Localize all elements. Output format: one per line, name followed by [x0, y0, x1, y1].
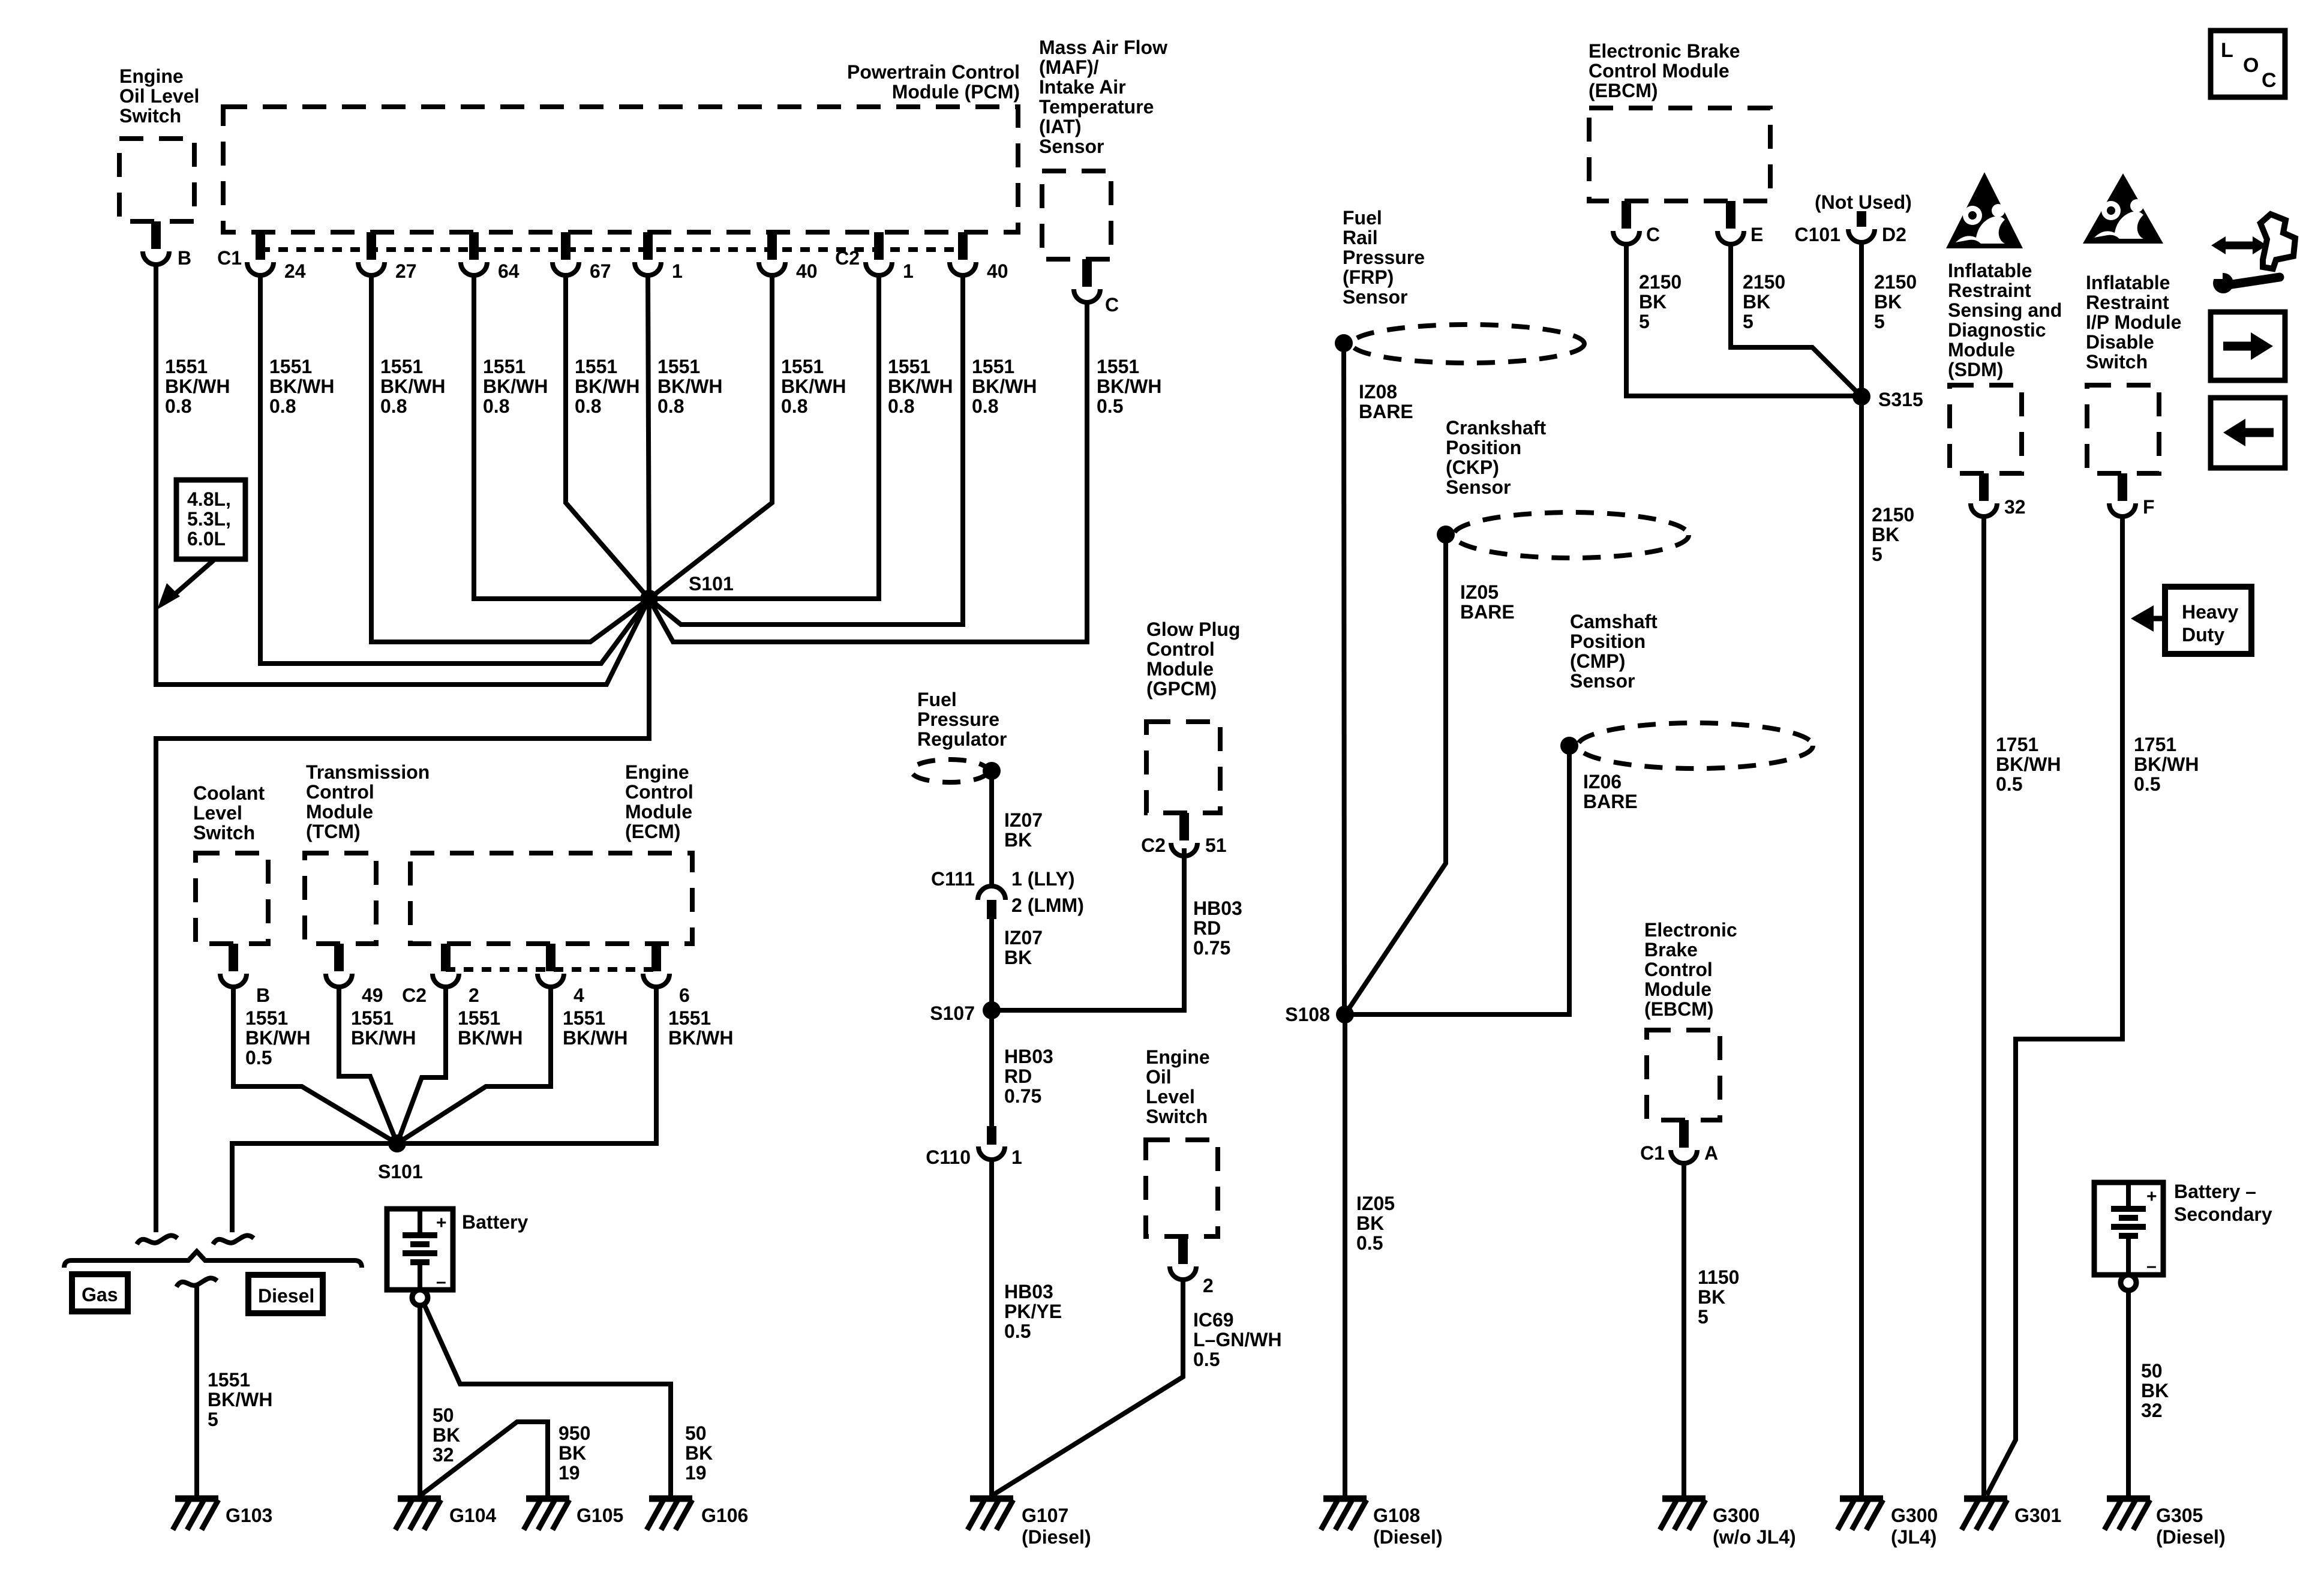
- node Gas: [72, 1274, 128, 1311]
- svg-text:G301: G301: [2014, 1505, 2061, 1526]
- svg-text:BK/WH: BK/WH: [575, 376, 639, 397]
- svg-text:50: 50: [433, 1404, 454, 1426]
- svg-text:G105: G105: [577, 1505, 623, 1526]
- note box 4.8L 5.3L 6.0L: [176, 480, 245, 559]
- svg-text:G108: G108: [1373, 1505, 1420, 1526]
- svg-text:49: 49: [362, 984, 383, 1006]
- svg-text:6.0L: 6.0L: [187, 528, 226, 550]
- ground G300 (JL4): [1840, 1496, 1883, 1502]
- svg-text:1: 1: [903, 260, 914, 282]
- ground G300 (w/o JL4): [1662, 1496, 1706, 1502]
- svg-text:BK/WH: BK/WH: [1097, 376, 1161, 397]
- svg-text:0.5: 0.5: [1097, 395, 1123, 417]
- wire MAF-C to S101: [649, 302, 1087, 642]
- svg-text:S315: S315: [1878, 389, 1923, 410]
- connector pin 67 at x=943 (PCM): [561, 232, 571, 260]
- svg-text:IC69: IC69: [1193, 1309, 1234, 1331]
- svg-text:1551: 1551: [380, 356, 423, 377]
- wire D2/S315 to G300 JL4: [1859, 242, 1864, 1499]
- ground G104: [398, 1496, 441, 1502]
- svg-text:Intake Air: Intake Air: [1039, 76, 1126, 98]
- svg-text:S101: S101: [689, 573, 734, 595]
- splice S101 (lower): [388, 1134, 406, 1152]
- svg-text:(FRP): (FRP): [1343, 266, 1394, 288]
- wire TCM-49 to S101 lower: [339, 987, 397, 1143]
- svg-text:BK: BK: [1356, 1212, 1384, 1234]
- connector pin 2 at x=743 (lower row): [441, 944, 451, 971]
- svg-text:2150: 2150: [1743, 271, 1785, 293]
- svg-text:O: O: [2243, 54, 2259, 77]
- wire FPR to C111: [989, 771, 994, 886]
- svg-text:0.5: 0.5: [1193, 1349, 1220, 1370]
- connector pin B at x=389 (lower row): [229, 944, 238, 971]
- wire S101 down-feed to lower section: [156, 599, 649, 1232]
- svg-text:32: 32: [433, 1444, 454, 1466]
- svg-text:G300: G300: [1891, 1505, 1938, 1526]
- svg-text:2 (LMM): 2 (LMM): [1011, 894, 1084, 916]
- svg-text:G305: G305: [2156, 1505, 2203, 1526]
- svg-text:0.5: 0.5: [1996, 773, 2022, 795]
- svg-text:Coolant: Coolant: [193, 782, 265, 804]
- svg-text:Module: Module: [1948, 339, 2015, 361]
- svg-text:BK/WH: BK/WH: [972, 376, 1037, 397]
- svg-text:1551: 1551: [668, 1007, 711, 1029]
- svg-text:Battery: Battery: [462, 1211, 528, 1233]
- svg-text:(SDM): (SDM): [1948, 359, 2003, 380]
- svg-text:1150: 1150: [1698, 1266, 1739, 1288]
- connector pin E (EBCM): [1726, 201, 1736, 229]
- svg-text:HB03: HB03: [1004, 1281, 1053, 1302]
- svg-text:BK: BK: [1743, 291, 1770, 313]
- battery Battery: [387, 1209, 453, 1290]
- wire SDM-32 to G301: [1981, 517, 1986, 1499]
- svg-text:BK/WH: BK/WH: [563, 1027, 627, 1049]
- svg-text:Electronic: Electronic: [1644, 919, 1737, 941]
- wire EBCM-E to S315: [1731, 244, 1861, 397]
- svg-text:1551: 1551: [1097, 356, 1139, 377]
- svg-text:HB03: HB03: [1193, 897, 1242, 919]
- connector C111: [978, 886, 1005, 900]
- svg-text:BK/WH: BK/WH: [351, 1027, 416, 1049]
- wire PCM-40b to S101: [649, 275, 963, 625]
- wire-end hook (gas feed): [137, 1235, 178, 1244]
- svg-text:1551: 1551: [351, 1007, 394, 1029]
- svg-text:(GPCM): (GPCM): [1146, 678, 1217, 700]
- svg-text:Pressure: Pressure: [1343, 247, 1425, 268]
- svg-text:64: 64: [498, 260, 520, 282]
- splice S107: [983, 1001, 1001, 1019]
- svg-text:C1: C1: [1640, 1142, 1665, 1164]
- svg-text:(CKP): (CKP): [1446, 457, 1499, 478]
- svg-text:Engine: Engine: [119, 65, 184, 87]
- connector pin 27 at x=619 (PCM): [367, 232, 376, 260]
- svg-text:32: 32: [2004, 496, 2026, 518]
- svg-text:4: 4: [574, 984, 584, 1006]
- wire PCM-40a to S101: [649, 275, 772, 599]
- arrow Heavy Duty: [2148, 616, 2165, 622]
- splice S315: [1852, 388, 1870, 406]
- connector C101 pin D2: [1857, 211, 1866, 227]
- wire S101 lower down-feed: [232, 1143, 397, 1232]
- ground G107: [970, 1496, 1013, 1502]
- svg-text:HB03: HB03: [1004, 1046, 1053, 1067]
- svg-text:BK/WH: BK/WH: [888, 376, 953, 397]
- ground G103: [175, 1496, 218, 1502]
- svg-text:(MAF)/: (MAF)/: [1039, 56, 1099, 78]
- wire C110 to G107: [989, 1160, 994, 1496]
- svg-text:Inflatable: Inflatable: [1948, 260, 2032, 281]
- icon LOC box: [2211, 31, 2285, 97]
- svg-text:BK/WH: BK/WH: [781, 376, 846, 397]
- svg-text:50: 50: [2141, 1360, 2163, 1382]
- svg-text:IZ07: IZ07: [1004, 809, 1043, 831]
- svg-text:Fuel: Fuel: [917, 689, 957, 710]
- wire ECM-6 to S101 lower: [397, 987, 656, 1143]
- svg-text:32: 32: [2141, 1400, 2163, 1421]
- connector pin C (EBCM): [1622, 201, 1631, 229]
- svg-text:Switch: Switch: [2086, 351, 2148, 373]
- svg-text:0.5: 0.5: [1356, 1232, 1383, 1254]
- svg-text:IZ05: IZ05: [1356, 1193, 1395, 1214]
- svg-text:Module: Module: [1644, 978, 1712, 1000]
- svg-text:Mass Air Flow: Mass Air Flow: [1039, 37, 1167, 58]
- svg-text:Brake: Brake: [1644, 939, 1698, 960]
- svg-text:Engine: Engine: [625, 761, 689, 783]
- svg-text:0.8: 0.8: [781, 395, 807, 417]
- svg-text:5: 5: [1698, 1306, 1709, 1328]
- svg-text:0.8: 0.8: [972, 395, 998, 417]
- wire ECM-4 to S101 lower: [397, 987, 551, 1143]
- svg-text:Pressure: Pressure: [917, 709, 999, 730]
- connector pin 49 at x=565 (lower row): [334, 944, 344, 971]
- svg-text:1551: 1551: [458, 1007, 500, 1029]
- connector pin 32 (SDM): [1979, 473, 1989, 501]
- connector pin 24 at x=434 (PCM): [256, 232, 265, 260]
- svg-text:5: 5: [1874, 311, 1885, 332]
- connector pin 40 at x=1287 (PCM): [767, 232, 777, 260]
- svg-text:BK/WH: BK/WH: [657, 376, 722, 397]
- connector pin 1 at x=1080 (PCM): [643, 232, 653, 260]
- svg-text:5: 5: [1872, 544, 1882, 565]
- svg-text:1551: 1551: [888, 356, 930, 377]
- wire S107 to GPCM C2-51: [992, 848, 1184, 1010]
- svg-text:Disable: Disable: [2086, 331, 2154, 353]
- wire brace to G103: [194, 1287, 199, 1499]
- splice at CMP sensor: [1560, 737, 1578, 755]
- connector C110: [987, 1126, 996, 1145]
- connector C1 pin A (EBCM lower): [1679, 1120, 1689, 1148]
- svg-text:RD: RD: [1004, 1065, 1032, 1087]
- svg-text:Powertrain Control: Powertrain Control: [847, 61, 1020, 83]
- svg-text:1551: 1551: [657, 356, 700, 377]
- svg-text:Battery –: Battery –: [2174, 1181, 2256, 1202]
- svg-text:40: 40: [987, 260, 1008, 282]
- svg-text:+: +: [436, 1213, 447, 1233]
- icon airbag warning triangle (SDM): [1946, 172, 2023, 248]
- svg-text:Restraint: Restraint: [2086, 292, 2169, 313]
- ground G105: [526, 1496, 569, 1502]
- svg-text:1551: 1551: [972, 356, 1014, 377]
- connector pin 40 at x=1605 (PCM): [958, 232, 968, 260]
- svg-text:I/P Module: I/P Module: [2086, 311, 2181, 333]
- svg-text:19: 19: [685, 1462, 707, 1484]
- icon diagnostic wrench with double arrow: [2221, 242, 2257, 250]
- svg-text:5: 5: [1743, 311, 1753, 332]
- wire PCM-24 to S101: [260, 275, 649, 664]
- svg-text:1: 1: [672, 260, 683, 282]
- svg-text:Position: Position: [1570, 631, 1646, 652]
- svg-text:1: 1: [1011, 1146, 1022, 1168]
- icon left arrow box: [2211, 398, 2285, 468]
- svg-text:+: +: [2146, 1187, 2157, 1206]
- svg-text:0.8: 0.8: [888, 395, 914, 417]
- svg-text:A: A: [1704, 1142, 1718, 1164]
- svg-text:0.75: 0.75: [1004, 1085, 1041, 1107]
- battery Battery - Secondary: [2094, 1182, 2163, 1275]
- svg-text:Heavy: Heavy: [2182, 601, 2239, 623]
- svg-text:1551: 1551: [575, 356, 617, 377]
- wire EBCM-C to S315: [1626, 244, 1861, 396]
- svg-text:(Diesel): (Diesel): [2156, 1526, 2226, 1548]
- svg-text:5: 5: [1639, 311, 1650, 332]
- svg-text:Oil: Oil: [1146, 1066, 1172, 1088]
- svg-text:Oil Level: Oil Level: [119, 85, 199, 107]
- svg-text:C: C: [1646, 224, 1660, 245]
- note box Heavy Duty: [2165, 587, 2251, 654]
- svg-text:Switch: Switch: [119, 105, 181, 127]
- svg-text:Regulator: Regulator: [917, 728, 1007, 750]
- svg-text:0.8: 0.8: [269, 395, 296, 417]
- connector pin B (Engine Oil Level Switch): [151, 221, 161, 249]
- connector pin 6 at x=1094 (lower row): [651, 944, 661, 971]
- svg-text:(EBCM): (EBCM): [1589, 80, 1658, 101]
- svg-text:Transmission: Transmission: [306, 761, 430, 783]
- wire disable switch F to G301: [1987, 517, 2122, 1495]
- svg-text:Control: Control: [1146, 638, 1215, 660]
- svg-text:C111: C111: [931, 868, 975, 890]
- svg-text:BK: BK: [2141, 1380, 2169, 1401]
- wire PCM-67 to S101: [566, 275, 649, 599]
- svg-text:BK/WH: BK/WH: [245, 1027, 310, 1049]
- svg-text:(ECM): (ECM): [625, 821, 680, 842]
- wire FRP to S108: [1344, 343, 1344, 1014]
- svg-text:0.8: 0.8: [575, 395, 601, 417]
- svg-text:S108: S108: [1285, 1004, 1330, 1025]
- svg-text:2: 2: [1203, 1275, 1214, 1296]
- svg-text:Sensing and: Sensing and: [1948, 299, 2062, 321]
- ground G108: [1323, 1496, 1367, 1502]
- svg-text:BK: BK: [1004, 947, 1032, 968]
- svg-text:0.8: 0.8: [165, 395, 191, 417]
- svg-text:Sensor: Sensor: [1446, 476, 1511, 498]
- svg-text:IZ07: IZ07: [1004, 927, 1043, 948]
- svg-text:BK/WH: BK/WH: [2134, 754, 2199, 775]
- svg-text:BK: BK: [1698, 1286, 1725, 1308]
- splice at CKP sensor: [1437, 526, 1455, 544]
- svg-text:Diagnostic: Diagnostic: [1948, 319, 2046, 341]
- svg-text:950: 950: [559, 1422, 590, 1444]
- svg-text:BARE: BARE: [1460, 601, 1515, 623]
- wire PCM-1 to S101: [648, 275, 649, 599]
- svg-text:BK: BK: [685, 1442, 713, 1464]
- svg-text:C101: C101: [1795, 224, 1841, 245]
- svg-text:Camshaft: Camshaft: [1570, 611, 1658, 632]
- svg-text:6: 6: [679, 984, 690, 1006]
- svg-text:(TCM): (TCM): [306, 821, 361, 842]
- svg-text:67: 67: [590, 260, 611, 282]
- connector pin 4 at x=918 (lower row): [546, 944, 556, 971]
- svg-text:1551: 1551: [245, 1007, 288, 1029]
- wire battery to G104: [418, 1305, 422, 1499]
- svg-text:Engine: Engine: [1146, 1046, 1210, 1068]
- svg-text:27: 27: [395, 260, 417, 282]
- svg-text:0.8: 0.8: [483, 395, 509, 417]
- ground G106: [649, 1496, 692, 1502]
- svg-text:0.5: 0.5: [1004, 1320, 1031, 1342]
- ground G305: [2107, 1496, 2150, 1502]
- svg-text:BK/WH: BK/WH: [165, 376, 230, 397]
- ground G301: [1964, 1496, 2007, 1502]
- svg-text:B: B: [256, 984, 270, 1006]
- svg-text:C: C: [1105, 294, 1119, 316]
- svg-text:S101: S101: [378, 1161, 423, 1182]
- svg-text:C1: C1: [217, 247, 242, 269]
- svg-text:RD: RD: [1193, 917, 1221, 939]
- svg-text:C110: C110: [926, 1146, 971, 1168]
- svg-text:0.5: 0.5: [2134, 773, 2160, 795]
- wire S107 to C110: [989, 1010, 994, 1126]
- icon airbag warning triangle (disable switch): [2083, 173, 2163, 244]
- svg-text:Switch: Switch: [193, 822, 255, 843]
- connector pin 64 at x=790 (PCM): [469, 232, 479, 260]
- svg-text:Diesel: Diesel: [258, 1285, 314, 1307]
- wire G104 to G105 jumper: [419, 1422, 548, 1499]
- svg-text:F: F: [2143, 496, 2155, 518]
- wire battery secondary to G305: [2126, 1290, 2131, 1499]
- svg-text:Temperature: Temperature: [1039, 96, 1154, 118]
- wire C111 to S107: [989, 919, 994, 1010]
- svg-text:–: –: [2146, 1256, 2157, 1276]
- svg-text:0.75: 0.75: [1193, 937, 1230, 959]
- svg-text:G106: G106: [701, 1505, 748, 1526]
- wire PCM-64 to S101: [474, 275, 649, 599]
- wire EBCM-A to G300 w/o JL4: [1682, 1163, 1686, 1499]
- svg-text:BK/WH: BK/WH: [458, 1027, 523, 1049]
- svg-text:Sensor: Sensor: [1039, 136, 1104, 157]
- svg-text:1551: 1551: [208, 1369, 250, 1391]
- svg-text:Crankshaft: Crankshaft: [1446, 417, 1547, 439]
- svg-text:BARE: BARE: [1359, 401, 1413, 422]
- svg-text:L–GN/WH: L–GN/WH: [1193, 1329, 1282, 1350]
- svg-text:Switch: Switch: [1146, 1106, 1208, 1127]
- svg-text:19: 19: [559, 1462, 580, 1484]
- splice S108: [1336, 1005, 1354, 1023]
- svg-text:G300: G300: [1713, 1505, 1759, 1526]
- wire coolant-B to S101 lower: [233, 987, 397, 1143]
- svg-text:Level: Level: [1146, 1086, 1195, 1107]
- svg-text:Rail: Rail: [1343, 227, 1378, 248]
- svg-text:Sensor: Sensor: [1570, 670, 1635, 692]
- svg-text:B: B: [178, 247, 191, 269]
- svg-text:Glow Plug: Glow Plug: [1146, 619, 1240, 640]
- svg-text:5.3L,: 5.3L,: [187, 508, 231, 530]
- svg-text:BK/WH: BK/WH: [208, 1389, 272, 1410]
- splice at FRP sensor: [1335, 334, 1353, 352]
- splice S101 (top): [640, 590, 658, 608]
- svg-text:1551: 1551: [483, 356, 526, 377]
- svg-text:BK/WH: BK/WH: [668, 1027, 733, 1049]
- svg-text:50: 50: [685, 1422, 707, 1444]
- svg-text:S107: S107: [930, 1002, 975, 1024]
- svg-text:2150: 2150: [1639, 271, 1682, 293]
- svg-text:4.8L,: 4.8L,: [187, 488, 231, 510]
- svg-text:BK/WH: BK/WH: [380, 376, 445, 397]
- svg-text:BARE: BARE: [1583, 791, 1638, 812]
- svg-text:Module: Module: [306, 801, 373, 822]
- svg-text:G107: G107: [1022, 1505, 1068, 1526]
- splice at Fuel Pressure Regulator: [983, 762, 1001, 780]
- svg-text:G104: G104: [449, 1505, 496, 1526]
- svg-text:BK/WH: BK/WH: [269, 376, 334, 397]
- icon right arrow box: [2211, 312, 2285, 380]
- svg-text:2: 2: [469, 984, 479, 1006]
- svg-text:BK: BK: [1874, 291, 1902, 313]
- svg-text:Restraint: Restraint: [1948, 280, 2031, 301]
- svg-text:IZ05: IZ05: [1460, 581, 1499, 603]
- svg-text:51: 51: [1205, 834, 1227, 856]
- svg-text:BK: BK: [1872, 524, 1899, 545]
- node Diesel: [248, 1275, 323, 1313]
- svg-text:L: L: [2221, 39, 2233, 62]
- svg-text:(CMP): (CMP): [1570, 650, 1625, 672]
- ECM connector row dotted line: [446, 967, 656, 972]
- svg-text:E: E: [1750, 224, 1763, 245]
- svg-text:C2: C2: [402, 984, 427, 1006]
- svg-text:1551: 1551: [781, 356, 824, 377]
- svg-text:40: 40: [796, 260, 818, 282]
- svg-text:IZ08: IZ08: [1359, 381, 1397, 403]
- wire ECM-2 to S101 lower: [397, 987, 446, 1143]
- svg-text:BK: BK: [433, 1424, 460, 1446]
- svg-text:Inflatable: Inflatable: [2086, 272, 2170, 293]
- svg-text:BK/WH: BK/WH: [483, 376, 548, 397]
- svg-text:1551: 1551: [165, 356, 208, 377]
- svg-text:2150: 2150: [1874, 271, 1917, 293]
- svg-text:Control: Control: [306, 781, 374, 803]
- connector pin 1 at x=1465 (PCM): [874, 232, 884, 260]
- svg-text:(IAT): (IAT): [1039, 116, 1081, 137]
- connector pin 2 (Engine Oil Level Switch diesel): [1178, 1236, 1188, 1264]
- wire-end hook (ground feed): [176, 1278, 217, 1287]
- svg-text:Electronic Brake: Electronic Brake: [1589, 40, 1740, 62]
- svg-text:1 (LLY): 1 (LLY): [1011, 868, 1075, 890]
- svg-text:Control: Control: [1644, 959, 1713, 980]
- svg-text:1551: 1551: [269, 356, 312, 377]
- wire CMP to S108: [1345, 746, 1569, 1014]
- svg-text:Position: Position: [1446, 437, 1521, 458]
- svg-text:BK: BK: [559, 1442, 586, 1464]
- svg-text:Fuel: Fuel: [1343, 207, 1382, 229]
- svg-text:BK/WH: BK/WH: [1996, 754, 2061, 775]
- svg-text:PK/YE: PK/YE: [1004, 1301, 1062, 1322]
- svg-text:1751: 1751: [1996, 734, 2038, 755]
- svg-text:Control Module: Control Module: [1589, 60, 1730, 82]
- wire CKP to S108: [1345, 535, 1446, 1014]
- svg-text:(w/o JL4): (w/o JL4): [1713, 1526, 1796, 1548]
- svg-text:1751: 1751: [2134, 734, 2176, 755]
- svg-text:(Diesel): (Diesel): [1373, 1526, 1443, 1548]
- svg-text:BK: BK: [1004, 829, 1032, 851]
